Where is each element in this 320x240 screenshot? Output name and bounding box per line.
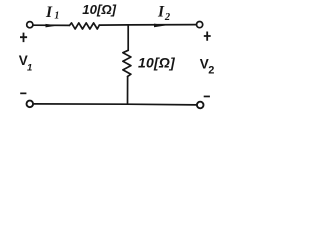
terminal port2 top (open circle) xyxy=(197,22,203,28)
polarity - at port2 bottom xyxy=(204,96,210,98)
svg-text:1: 1 xyxy=(54,11,59,22)
svg-text:10[Ω]: 10[Ω] xyxy=(82,2,116,17)
terminal port1 top (open circle) xyxy=(27,22,33,28)
wire: bottom rail right (node B to port2-) xyxy=(128,103,197,106)
polarity - at port1 bottom xyxy=(20,93,26,95)
current arrow I2 (on top-right wire) xyxy=(154,24,167,28)
wire: bottom rail left (port1- to node B) xyxy=(33,103,127,105)
node A junction (T) and wire node A to port2 xyxy=(128,24,196,26)
wire: top-left segment port1 to resistor R1 xyxy=(33,24,69,26)
terminal port2 bottom (open circle) xyxy=(197,102,204,109)
polarity + at port2 top xyxy=(204,32,211,41)
current arrow I1 (on top-left wire) xyxy=(46,24,59,28)
resistor R1 10 ohm series (horizontal zigzag) xyxy=(70,23,100,29)
svg-text:1: 1 xyxy=(27,63,32,74)
svg-text:2: 2 xyxy=(164,12,171,23)
svg-text:I: I xyxy=(157,4,165,21)
terminal port1 bottom (open circle) xyxy=(27,101,34,108)
wire: R2 down to bottom rail node B xyxy=(127,76,129,104)
wire: node A down to resistor R2 xyxy=(127,25,129,50)
wire: R1 to node A xyxy=(99,24,128,26)
resistor R2 10 ohm shunt (vertical zigzag) xyxy=(123,50,131,76)
svg-text:I: I xyxy=(45,4,53,21)
polarity + at port1 top xyxy=(20,33,27,43)
svg-text:2: 2 xyxy=(208,65,214,77)
svg-text:10[Ω]: 10[Ω] xyxy=(138,54,176,70)
